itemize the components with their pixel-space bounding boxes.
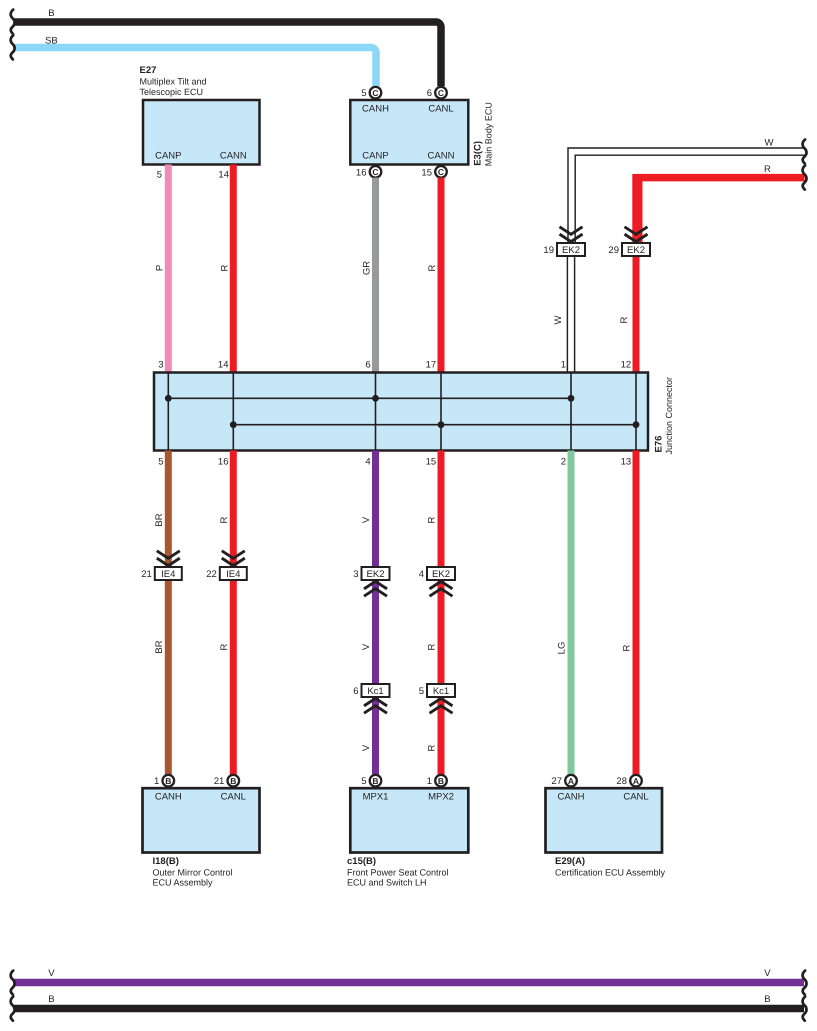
svg-text:W: W bbox=[765, 138, 774, 149]
pin 28 circle A (E29 CANL) bbox=[616, 775, 641, 787]
wire V (E76 pin4 to c15 pin5) bbox=[361, 451, 376, 775]
pin 15 circle C (E3 CANN) bbox=[421, 166, 446, 178]
wire W trunk (right, white with black outline) bbox=[568, 138, 805, 243]
svg-text:12: 12 bbox=[621, 360, 632, 371]
connector 29 EK2 bbox=[608, 227, 650, 256]
pin 16 circle C (E3 CANP) bbox=[356, 166, 381, 178]
ECU E29(A) Certification ECU Assembly bbox=[546, 788, 666, 877]
svg-text:C: C bbox=[372, 167, 378, 177]
wire R trunk (right, red) bbox=[637, 164, 805, 244]
svg-text:R: R bbox=[219, 643, 230, 650]
svg-text:B: B bbox=[764, 994, 770, 1005]
svg-text:EK2: EK2 bbox=[627, 245, 645, 256]
wire R (E76 pin16 to I18 pin21) bbox=[219, 451, 233, 775]
svg-text:A: A bbox=[568, 776, 574, 786]
svg-text:17: 17 bbox=[426, 360, 437, 371]
break symbol left of SB bbox=[11, 35, 15, 59]
svg-text:A: A bbox=[633, 776, 639, 786]
pin 5 circle C (E3 CANH) bbox=[361, 87, 381, 99]
svg-text:C: C bbox=[438, 88, 444, 98]
svg-text:E27: E27 bbox=[140, 65, 157, 76]
svg-text:6: 6 bbox=[353, 686, 358, 697]
wire LG (E76 pin2 to E29 pin27) bbox=[557, 451, 572, 775]
svg-text:B: B bbox=[230, 776, 236, 786]
connector 3 EK2 bbox=[353, 567, 389, 596]
wire GR (E3 pin16 to E76 pin6) bbox=[362, 178, 376, 373]
svg-text:R: R bbox=[764, 164, 771, 175]
wire R (EK2 29 to E76 pin12) bbox=[633, 256, 640, 373]
svg-text:EK2: EK2 bbox=[432, 569, 450, 580]
svg-text:E29(A): E29(A) bbox=[555, 856, 585, 867]
svg-text:V: V bbox=[48, 968, 55, 979]
svg-text:IE4: IE4 bbox=[226, 569, 240, 580]
svg-text:CANH: CANH bbox=[155, 792, 182, 803]
svg-text:CANN: CANN bbox=[220, 151, 247, 162]
pin 21 circle B (I18 CANL) bbox=[214, 775, 239, 787]
pin 27 circle A (E29 CANH) bbox=[551, 775, 576, 787]
svg-text:6: 6 bbox=[427, 88, 432, 99]
wire B trunk (top, black) bbox=[14, 22, 441, 86]
connector 6 Kc1 bbox=[353, 684, 389, 713]
svg-text:15: 15 bbox=[421, 167, 432, 178]
svg-text:Kc1: Kc1 bbox=[433, 686, 449, 697]
svg-text:R: R bbox=[427, 744, 438, 751]
svg-text:5: 5 bbox=[361, 776, 366, 787]
junction dots top bus bbox=[165, 395, 172, 402]
connector 5 Kc1 bbox=[419, 684, 455, 713]
svg-text:3: 3 bbox=[353, 569, 358, 580]
svg-text:CANH: CANH bbox=[362, 104, 389, 115]
svg-text:EK2: EK2 bbox=[562, 245, 580, 256]
svg-text:29: 29 bbox=[608, 245, 619, 256]
svg-text:5: 5 bbox=[419, 686, 424, 697]
connector 22 IE4 bbox=[206, 551, 247, 580]
svg-text:22: 22 bbox=[206, 569, 217, 580]
svg-text:R: R bbox=[619, 316, 630, 323]
ECU E3(C) Main Body ECU bbox=[350, 100, 493, 166]
svg-text:B: B bbox=[165, 776, 171, 786]
svg-text:28: 28 bbox=[616, 776, 627, 787]
wire R (E3 pin15 to E76 pin17) bbox=[427, 178, 441, 373]
svg-text:ECU and Switch LH: ECU and Switch LH bbox=[347, 878, 427, 888]
svg-text:1: 1 bbox=[154, 776, 159, 787]
wire R (E27 pin14 to E76 pin14) bbox=[220, 165, 234, 373]
svg-text:14: 14 bbox=[218, 170, 229, 181]
wire R (E76 pin13 to E29 pin28) bbox=[622, 451, 637, 775]
svg-text:CANL: CANL bbox=[428, 104, 453, 115]
pin 1 circle B (c15 MPX2) bbox=[427, 775, 447, 787]
svg-text:CANH: CANH bbox=[558, 792, 585, 803]
svg-text:19: 19 bbox=[543, 245, 554, 256]
svg-text:1: 1 bbox=[561, 360, 566, 371]
break symbol left of bottom B bbox=[11, 997, 15, 1021]
svg-text:V: V bbox=[361, 643, 372, 650]
svg-text:R: R bbox=[622, 644, 633, 651]
break symbol right of W bbox=[803, 140, 807, 164]
svg-text:21: 21 bbox=[214, 776, 225, 787]
svg-text:Kc1: Kc1 bbox=[367, 686, 383, 697]
svg-text:3: 3 bbox=[158, 360, 163, 371]
svg-text:LG: LG bbox=[557, 642, 568, 655]
pin 1 circle B (I18 CANH) bbox=[154, 775, 174, 787]
svg-text:V: V bbox=[361, 516, 372, 523]
svg-text:B: B bbox=[438, 776, 444, 786]
ECU E27 Multiplex Tilt and Telescopic ECU bbox=[140, 65, 260, 165]
break symbol right of R bbox=[803, 166, 807, 190]
svg-text:CANN: CANN bbox=[428, 151, 455, 162]
svg-text:SB: SB bbox=[45, 35, 58, 46]
svg-text:P: P bbox=[155, 265, 166, 271]
ECU c15(B) Front Power Seat Control ECU and Switch LH bbox=[347, 788, 468, 887]
wire SB trunk (sky blue) bbox=[14, 48, 376, 87]
break symbol left of V bbox=[11, 971, 15, 995]
connector 19 EK2 bbox=[543, 227, 585, 256]
svg-text:BR: BR bbox=[154, 513, 165, 526]
break symbol right of bottom B bbox=[803, 997, 807, 1021]
svg-text:5: 5 bbox=[158, 457, 163, 468]
wire V trunk (bottom, violet) bbox=[14, 968, 804, 983]
wire R (E76 pin15 to c15 pin1) bbox=[427, 451, 442, 775]
connector 4 EK2 bbox=[419, 567, 455, 596]
svg-text:16: 16 bbox=[218, 457, 229, 468]
wire W (EK2 19 to E76 pin1) bbox=[567, 256, 574, 373]
svg-text:Outer Mirror Control: Outer Mirror Control bbox=[153, 867, 233, 877]
svg-text:R: R bbox=[427, 643, 438, 650]
connector 21 IE4 bbox=[141, 551, 182, 580]
svg-text:E3(C): E3(C) bbox=[473, 141, 484, 166]
svg-text:CANL: CANL bbox=[221, 792, 246, 803]
wire BR (E76 pin5 to I18 pin1) bbox=[154, 451, 168, 775]
svg-text:Junction Connector: Junction Connector bbox=[664, 377, 674, 455]
svg-text:C: C bbox=[372, 88, 378, 98]
break symbol right of V bbox=[803, 971, 807, 995]
svg-text:27: 27 bbox=[551, 776, 562, 787]
svg-text:B: B bbox=[372, 776, 378, 786]
svg-text:5: 5 bbox=[361, 88, 366, 99]
svg-text:MPX1: MPX1 bbox=[363, 792, 389, 803]
svg-text:V: V bbox=[361, 744, 372, 751]
svg-text:4: 4 bbox=[365, 457, 370, 468]
svg-text:Multiplex Tilt and: Multiplex Tilt and bbox=[140, 76, 207, 86]
svg-text:MPX2: MPX2 bbox=[428, 792, 454, 803]
svg-text:BR: BR bbox=[154, 640, 165, 653]
svg-text:R: R bbox=[220, 264, 231, 271]
internal pin lines bbox=[168, 373, 636, 451]
svg-text:ECU Assembly: ECU Assembly bbox=[153, 878, 214, 888]
svg-text:R: R bbox=[219, 516, 230, 523]
svg-text:Certification ECU Assembly: Certification ECU Assembly bbox=[555, 867, 666, 877]
svg-text:C: C bbox=[438, 167, 444, 177]
svg-text:E76: E76 bbox=[654, 436, 665, 453]
svg-text:IE4: IE4 bbox=[161, 569, 175, 580]
svg-text:Main Body ECU: Main Body ECU bbox=[484, 102, 494, 166]
svg-text:2: 2 bbox=[561, 457, 566, 468]
svg-text:CANP: CANP bbox=[155, 151, 181, 162]
svg-text:GR: GR bbox=[362, 261, 373, 275]
svg-text:21: 21 bbox=[141, 569, 152, 580]
svg-text:Telescopic ECU: Telescopic ECU bbox=[140, 87, 204, 97]
svg-text:B: B bbox=[48, 8, 54, 19]
svg-text:13: 13 bbox=[621, 457, 632, 468]
svg-text:R: R bbox=[427, 264, 438, 271]
pin 5 circle B (c15 MPX1) bbox=[361, 775, 381, 787]
svg-text:15: 15 bbox=[426, 457, 437, 468]
svg-text:1: 1 bbox=[427, 776, 432, 787]
ECU I18(B) Outer Mirror Control ECU Assembly bbox=[143, 788, 260, 887]
svg-text:6: 6 bbox=[365, 360, 370, 371]
svg-text:R: R bbox=[427, 516, 438, 523]
svg-text:I18(B): I18(B) bbox=[153, 856, 179, 867]
junction dots bottom bus bbox=[230, 421, 237, 428]
break symbol left of B bbox=[11, 10, 15, 34]
svg-text:V: V bbox=[764, 968, 771, 979]
svg-text:5: 5 bbox=[157, 170, 162, 181]
junction connector E76 bbox=[154, 373, 674, 455]
svg-text:16: 16 bbox=[356, 167, 367, 178]
pin 6 circle C (E3 CANL) bbox=[427, 87, 447, 99]
svg-text:EK2: EK2 bbox=[367, 569, 385, 580]
svg-text:4: 4 bbox=[419, 569, 424, 580]
svg-text:CANP: CANP bbox=[362, 151, 388, 162]
svg-text:W: W bbox=[553, 315, 564, 324]
svg-text:CANL: CANL bbox=[623, 792, 648, 803]
svg-text:14: 14 bbox=[218, 360, 229, 371]
svg-text:Front Power Seat Control: Front Power Seat Control bbox=[347, 867, 449, 877]
wire P (E27 pin5 to E76 pin3) bbox=[155, 165, 169, 373]
CANL bus bbox=[233, 424, 636, 426]
wire B trunk (bottom, black) bbox=[14, 994, 804, 1009]
svg-text:B: B bbox=[48, 994, 54, 1005]
svg-text:c15(B): c15(B) bbox=[347, 856, 376, 867]
CANH bus bbox=[168, 397, 571, 399]
